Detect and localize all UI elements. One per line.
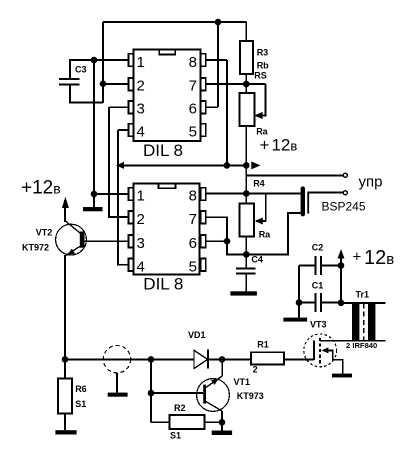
svg-text:2 IRF840: 2 IRF840 [346,341,377,350]
svg-text:5: 5 [189,124,197,141]
svg-text:7: 7 [189,211,197,228]
svg-text:C1: C1 [312,281,324,291]
svg-text:2: 2 [137,211,145,228]
svg-text:VT3: VT3 [310,320,327,330]
svg-text:6: 6 [189,101,197,118]
svg-text:R3: R3 [257,48,269,58]
svg-text:VT1: VT1 [234,377,251,387]
svg-text:4: 4 [137,124,145,141]
svg-text:C4: C4 [251,255,263,265]
svg-text:+: + [353,249,362,266]
svg-text:12в: 12в [364,247,394,269]
svg-text:VD1: VD1 [188,330,206,340]
svg-text:1: 1 [137,188,145,205]
svg-text:DIL 8: DIL 8 [143,141,183,160]
svg-text:6: 6 [189,235,197,252]
svg-text:RS: RS [254,71,267,81]
svg-text:C3: C3 [75,65,87,75]
svg-text:S1: S1 [170,431,181,441]
svg-text:Rb: Rb [257,61,269,71]
svg-text:R2: R2 [174,403,186,413]
svg-text:3: 3 [137,235,145,252]
svg-text:R1: R1 [257,340,269,350]
svg-text:+12в: +12в [260,136,298,155]
svg-text:7: 7 [189,78,197,95]
svg-text:8: 8 [189,54,197,71]
svg-text:BSP245: BSP245 [322,200,366,214]
svg-text:R6: R6 [75,384,87,394]
svg-text:Tr1: Tr1 [356,290,370,300]
svg-text:упр: упр [359,174,383,191]
svg-text:KT973: KT973 [237,391,264,401]
svg-text:Ra: Ra [259,230,271,240]
svg-text:R4: R4 [253,179,265,189]
svg-text:+12в: +12в [21,178,61,199]
svg-text:2: 2 [253,365,258,375]
svg-text:3: 3 [137,101,145,118]
svg-text:VT2: VT2 [36,228,53,238]
svg-text:4: 4 [137,258,145,275]
svg-text:5: 5 [189,258,197,275]
svg-text:1: 1 [137,54,145,71]
svg-text:2: 2 [137,78,145,95]
svg-text:8: 8 [189,188,197,205]
svg-text:S1: S1 [75,399,86,409]
svg-text:DIL 8: DIL 8 [143,275,183,294]
svg-text:C2: C2 [312,243,324,253]
svg-text:KT972: KT972 [22,243,49,253]
